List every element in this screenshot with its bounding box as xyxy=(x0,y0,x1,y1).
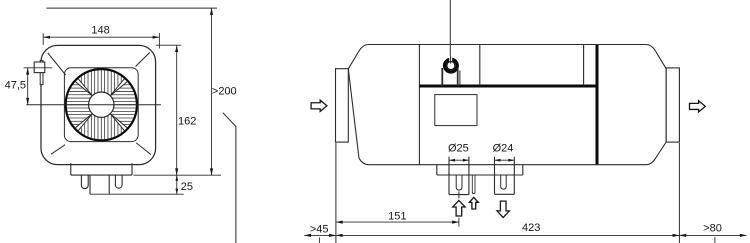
dim 25 lower extension line xyxy=(90,193,184,195)
dim 47,5 line xyxy=(26,68,29,105)
corner diagonal top-left xyxy=(48,53,66,75)
dim 151 label xyxy=(388,210,406,222)
fan spokes xyxy=(75,79,127,131)
dim 47,5 extension line xyxy=(24,67,53,69)
harness jog line xyxy=(223,113,236,243)
svg-text:Ø25: Ø25 xyxy=(448,143,469,155)
dim 151 line xyxy=(336,221,459,224)
corner diagonal bottom-right xyxy=(136,143,151,155)
dim 25 label xyxy=(181,181,193,193)
svg-text:148: 148 xyxy=(91,25,109,37)
svg-text:>200: >200 xyxy=(212,85,237,97)
air inlet flow arrow xyxy=(311,100,327,111)
svg-text:423: 423 xyxy=(522,222,540,234)
front left leg xyxy=(81,175,88,189)
dim >200 label xyxy=(212,85,237,97)
blower section divider xyxy=(418,45,420,165)
fuel line stub xyxy=(472,175,475,194)
dim >45 label xyxy=(310,223,329,235)
type label plate xyxy=(435,95,477,126)
heat exchanger thick divider xyxy=(596,45,599,164)
right outlet flange xyxy=(666,68,679,142)
corner diagonal top-right xyxy=(136,52,150,66)
svg-text:25: 25 xyxy=(181,181,193,193)
dim Ø24 line xyxy=(495,159,515,162)
left intake flange xyxy=(336,69,349,142)
dim Ø25 label xyxy=(448,143,469,155)
fuel flow arrow xyxy=(469,197,478,209)
dim >200 line xyxy=(210,8,213,175)
dim 162 line xyxy=(175,45,178,175)
dim >80 line xyxy=(679,234,746,237)
svg-text:162: 162 xyxy=(178,115,196,127)
svg-text:>80: >80 xyxy=(703,223,722,235)
dim 25 line xyxy=(175,175,178,194)
top band divider xyxy=(479,45,481,87)
exhaust flow arrow xyxy=(453,200,465,216)
eyelet leader line xyxy=(449,0,451,63)
eyelet bracket xyxy=(442,68,460,86)
dim 423 line xyxy=(336,234,680,237)
left extension line xyxy=(335,143,337,243)
dim 151 tick xyxy=(458,218,460,227)
fan grille outer ring xyxy=(66,69,137,140)
exhaust pipe center tick xyxy=(458,191,460,198)
fan bezel square xyxy=(64,68,138,142)
dim >80 label xyxy=(703,223,722,235)
svg-text:>45: >45 xyxy=(310,223,329,235)
dim >80 tick xyxy=(714,237,716,243)
dim 148 line xyxy=(43,36,159,39)
bottom mounting flange xyxy=(437,165,523,175)
dim 148 extension ticks xyxy=(43,33,159,49)
front center stub xyxy=(90,175,109,194)
dim >45 tick xyxy=(318,237,320,243)
dim Ø25 line xyxy=(449,159,469,162)
combustion air flow arrow xyxy=(497,201,509,217)
dim 47,5 label xyxy=(5,80,26,92)
corner diagonal bottom-left xyxy=(51,145,65,155)
top band right edge xyxy=(583,45,585,87)
dim 423 label xyxy=(522,222,540,234)
mounting eyelet xyxy=(445,56,458,72)
clamp tab xyxy=(34,61,45,85)
svg-text:Ø24: Ø24 xyxy=(493,143,514,155)
top band bottom thick line xyxy=(419,85,597,88)
dim >45 line xyxy=(304,234,336,237)
dim 25 upper extension line xyxy=(134,174,222,176)
horizontal centerline xyxy=(26,104,161,106)
fan grille louvres hatch xyxy=(67,70,136,139)
air outlet flow arrow xyxy=(690,101,706,112)
combustion air pipe xyxy=(495,157,515,195)
svg-text:47,5: 47,5 xyxy=(5,80,26,92)
dim Ø24 label xyxy=(493,143,514,155)
heater front housing outline xyxy=(41,45,156,164)
heater side body outline xyxy=(348,45,666,165)
clearance top extension line xyxy=(46,7,217,9)
exhaust pipe xyxy=(449,157,469,195)
svg-text:151: 151 xyxy=(388,210,406,222)
front right leg xyxy=(115,175,122,188)
dim 162 top extension line xyxy=(156,44,181,46)
dim 148 label xyxy=(91,25,109,37)
dim 162 label xyxy=(178,115,196,127)
right extension line xyxy=(678,143,680,243)
front mounting flange xyxy=(71,163,132,175)
fan hub xyxy=(89,92,114,117)
